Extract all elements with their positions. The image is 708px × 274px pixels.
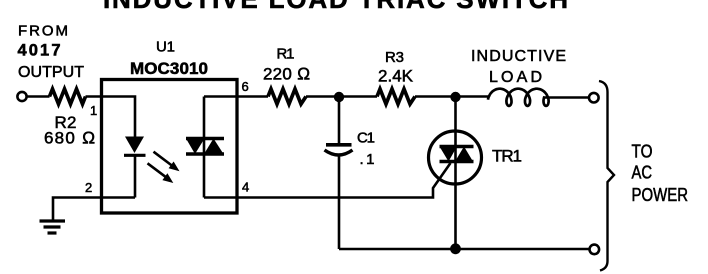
triac inside U1 (photo-triac) [203,97,206,155]
bottom output terminal (open circle) [590,245,600,255]
transistor TR1 triac circle [429,131,482,184]
svg-text:R1: R1 [277,46,295,63]
capacitor C1 branch wire from node A [338,97,341,143]
wire inductor to top output terminal [544,96,589,99]
wire pin6 to R1 [237,95,268,98]
wire node B to inductor [456,95,489,98]
node label TO AC POWER [632,142,689,206]
svg-text:AC: AC [632,163,653,183]
svg-text:TO: TO [632,142,653,162]
svg-text:OUTPUT: OUTPUT [18,64,84,81]
node A junction dot [334,92,344,102]
svg-text:2: 2 [85,180,92,195]
resistor R1 [268,89,306,104]
svg-text:6: 6 [242,79,249,94]
svg-text:220 Ω: 220 Ω [263,65,310,84]
node label FROM 4017 OUTPUT [18,23,85,82]
pin 2 wire to ground [53,198,135,220]
wire R2 to U1 pin1 and into LED branch [86,97,136,137]
svg-text:1: 1 [90,103,97,118]
svg-text:TR1: TR1 [492,147,522,166]
ground [40,221,66,233]
bottom junction dot [450,243,461,254]
svg-text:C1: C1 [357,130,375,147]
svg-text:2.4K: 2.4K [378,67,414,86]
wire node A to R3 [339,95,377,98]
svg-text:INDUCTIVE: INDUCTIVE [471,48,566,65]
svg-text:R3: R3 [385,49,404,66]
top output terminal (open circle) [589,93,599,103]
wire input terminal to R2 [27,95,50,98]
TR1 bottom wire to bottom rail [454,162,457,250]
light emission arrows [148,152,180,183]
resistor R3 [377,89,415,104]
gate wire pin4 to TR1 [237,163,451,198]
node B junction dot [450,92,460,102]
TR1 triac symbol [440,145,474,148]
svg-text:MOC3010: MOC3010 [130,59,208,78]
brace to AC power [599,81,614,271]
capacitor C1 [326,143,352,147]
wire triac top to pin 6 [204,95,237,98]
inductor INDUCTIVE LOAD [488,89,549,106]
LED inside U1 [125,137,144,154]
wire R1 to node A [306,95,339,98]
svg-text:U1: U1 [156,39,175,56]
svg-text:.1: .1 [360,151,375,168]
svg-text:680 Ω: 680 Ω [44,129,95,148]
input terminal (open circle) [17,92,26,101]
TR1 top wire from node B [454,97,457,162]
wire C1 down to bottom rail [338,154,341,249]
wire R3 to node B [415,95,456,98]
svg-text:FROM: FROM [18,23,68,40]
optocoupler U1 MOC3010 box [102,80,238,214]
resistor R2 [50,89,86,104]
wire triac bottom to pin 4 [204,196,237,199]
svg-text:4: 4 [242,180,249,195]
bottom rail wire [339,248,590,251]
svg-text:POWER: POWER [632,185,689,205]
